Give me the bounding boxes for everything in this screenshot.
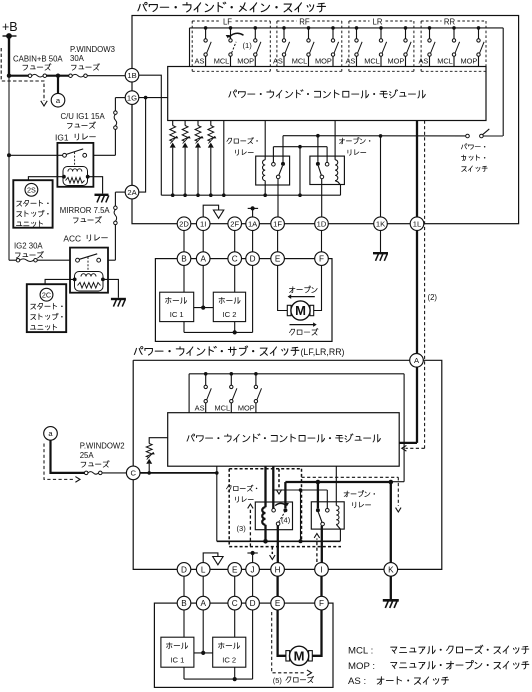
wire open relay common to 1D xyxy=(321,179,323,217)
dashed group box LR xyxy=(349,20,370,22)
label sub switch title xyxy=(134,348,136,354)
wire J-D xyxy=(252,576,254,596)
node C (sub unit) xyxy=(228,596,242,610)
switch sub MCL xyxy=(230,372,234,376)
label close direction xyxy=(290,324,315,326)
relay close contacts (main) xyxy=(282,136,284,162)
wire module supply bus (main) xyxy=(161,194,340,196)
node A junction xyxy=(410,354,424,368)
relay open coil (sub) xyxy=(335,466,337,505)
wire C to hall IC2 xyxy=(234,265,236,292)
svg-text:IC 1: IC 1 xyxy=(170,310,184,319)
wire fuse to IG1 relay contact xyxy=(114,129,116,155)
wire line A to 1K xyxy=(379,134,383,138)
wire 1G-2A link xyxy=(131,104,133,185)
node K (sub) xyxy=(384,563,398,577)
svg-text:(LF,LR,RR): (LF,LR,RR) xyxy=(301,347,345,357)
wire hall mid link xyxy=(194,307,214,309)
resistor with arrow at x=210.8 xyxy=(210,121,212,126)
svg-text:MCL: MCL xyxy=(214,403,230,412)
svg-text:A: A xyxy=(200,599,206,608)
node F (sub unit) xyxy=(315,596,329,610)
wire fuse to 1B xyxy=(87,75,125,77)
svg-text:P.WINDOW2: P.WINDOW2 xyxy=(80,442,125,451)
svg-text:MIRROR 7.5A: MIRROR 7.5A xyxy=(60,206,111,215)
wire +B main feed vertical xyxy=(8,36,10,76)
box main door unit (motor/hall) xyxy=(155,259,332,342)
relay close coil (main) xyxy=(264,121,266,160)
svg-text:IC 1: IC 1 xyxy=(170,655,184,664)
svg-text:MOP: MOP xyxy=(238,403,255,412)
node C xyxy=(126,466,140,480)
wire D-B xyxy=(183,576,185,596)
dashed flow bus bottom xyxy=(229,546,341,548)
wire module pin to bus xyxy=(223,121,225,196)
wire CABIN+B fuse feed xyxy=(9,75,28,77)
fuse P.WINDOW2 25A xyxy=(84,471,88,475)
svg-text:25A: 25A xyxy=(80,451,95,460)
svg-text:B: B xyxy=(181,255,187,264)
switch RR MOP xyxy=(477,26,481,30)
svg-text:2C: 2C xyxy=(42,290,51,299)
wire D to sensor bus xyxy=(252,265,254,332)
svg-text:MOP: MOP xyxy=(315,57,332,66)
svg-text:AS: AS xyxy=(195,57,205,66)
relay close (main) box xyxy=(256,156,290,185)
node 1F xyxy=(271,217,285,231)
resistor with arrow at x=172.7 xyxy=(172,121,174,126)
relay open coil (main) xyxy=(334,121,336,160)
node 2D xyxy=(183,217,185,231)
label open relay (sub) xyxy=(344,492,349,494)
svg-text:(3): (3) xyxy=(237,524,247,533)
wire 2A to MIRROR fuse xyxy=(115,191,125,193)
wire E to motor (sub) thick xyxy=(278,610,286,656)
svg-text:B: B xyxy=(181,599,187,608)
relay open (sub) box xyxy=(311,502,344,529)
svg-text:C: C xyxy=(130,469,136,478)
node L (sub) xyxy=(196,563,210,577)
svg-text:IC 2: IC 2 xyxy=(222,655,236,664)
svg-text:1F: 1F xyxy=(273,219,282,228)
wire D to sensor bus (sub) xyxy=(252,610,254,679)
node A (main unit) xyxy=(196,252,210,266)
wire B to hall IC1 xyxy=(183,265,185,292)
node 1I xyxy=(196,217,210,231)
wire E-C xyxy=(234,576,236,596)
wire hall mid link (sub) xyxy=(194,652,213,654)
wire bus to module top-left xyxy=(189,28,191,67)
wire 2D-B xyxy=(183,231,185,252)
node H (sub) xyxy=(271,563,285,577)
node E (sub unit) xyxy=(271,596,285,610)
svg-text:F: F xyxy=(319,255,324,264)
svg-text:D: D xyxy=(181,565,187,574)
dashed feed arrow (a to C) xyxy=(44,444,74,480)
switch sub AS xyxy=(204,372,208,376)
svg-text:C: C xyxy=(232,599,238,608)
wire 1B to supply bus xyxy=(139,75,162,195)
wire 1L thick feed from module to A xyxy=(416,121,418,217)
svg-text:MCL: MCL xyxy=(437,57,453,66)
wire module pin to coil bus (sub) xyxy=(216,466,218,541)
svg-text:D: D xyxy=(250,255,256,264)
ground ACC relay xyxy=(111,298,126,300)
wire line A to K (thick) xyxy=(390,482,392,563)
svg-text:LF: LF xyxy=(223,17,232,26)
wire C supply bus (sub) xyxy=(140,472,217,474)
wire 1D-F xyxy=(321,231,323,252)
svg-text:MOP: MOP xyxy=(387,57,404,66)
wire IG1 coil to 2S unit xyxy=(28,177,64,181)
svg-text:P.WINDOW3: P.WINDOW3 xyxy=(70,45,115,54)
node D (main unit) xyxy=(246,252,260,266)
svg-text:MOP :: MOP : xyxy=(348,661,375,672)
wire close relay common to 1F xyxy=(277,179,279,217)
ground IG1 relay xyxy=(95,194,109,196)
svg-text:MCL: MCL xyxy=(214,57,230,66)
svg-text:+B: +B xyxy=(2,20,18,34)
node F (main unit) xyxy=(315,252,329,266)
node B (main unit) xyxy=(177,252,191,266)
svg-text:(1): (1) xyxy=(243,41,253,50)
svg-text:MCL: MCL xyxy=(292,57,308,66)
wire relay contact line A (main) xyxy=(283,135,466,137)
fuse MIRROR 7.5A xyxy=(114,206,118,210)
node 1A xyxy=(246,217,260,231)
wire IG2 fuse to ACC relay xyxy=(37,259,70,261)
wire fuse to ACC relay contact xyxy=(114,225,116,261)
label (1) actuation arrow on LF MCL xyxy=(229,33,244,37)
svg-text:2S: 2S xyxy=(27,185,36,194)
dashed branch arrow (to other circuits) xyxy=(1,48,44,101)
svg-text:AS: AS xyxy=(195,403,205,412)
fuse IG2 30A xyxy=(9,259,16,261)
relay open contacts (sub) xyxy=(316,508,320,512)
svg-text:A: A xyxy=(200,255,206,264)
svg-text:RR: RR xyxy=(444,17,456,26)
dashed arrow up near I xyxy=(316,539,318,563)
wire bus right drop xyxy=(403,374,405,482)
wire motor to F xyxy=(314,265,322,310)
wire a to P.WINDOW2 fuse xyxy=(51,440,85,473)
svg-text:1L: 1L xyxy=(413,219,421,228)
wire IG1 coil to ground xyxy=(88,177,103,194)
terminal arrow above 1I xyxy=(203,205,218,217)
dashed arrow into close relay xyxy=(278,469,280,489)
box control module (sub) xyxy=(168,413,400,467)
label close relay (sub) xyxy=(226,486,228,489)
relay IG1 coil xyxy=(63,167,88,186)
svg-text:M: M xyxy=(294,648,305,663)
dashed arrow toward H xyxy=(271,547,273,554)
wire A to sensor mid (sub) xyxy=(202,610,204,653)
svg-text:(2): (2) xyxy=(428,293,438,302)
svg-text:IG2 30A: IG2 30A xyxy=(14,241,43,250)
box 2S start-stop unit xyxy=(13,180,52,228)
resistor (sub) xyxy=(149,438,168,444)
wire switch supply bus xyxy=(190,27,504,29)
svg-text:CABIN+B 50A: CABIN+B 50A xyxy=(13,54,63,63)
svg-text:I: I xyxy=(320,565,322,574)
svg-text:LR: LR xyxy=(373,17,383,26)
node I (sub) xyxy=(315,563,329,577)
resistor with arrow at x=185.1 xyxy=(184,121,186,126)
wire 1G to module xyxy=(139,97,168,99)
ground K (thick) xyxy=(390,576,392,599)
relay close contacts (sub) xyxy=(272,466,274,508)
terminal arrow above L xyxy=(203,553,218,563)
svg-text:E: E xyxy=(275,255,281,264)
dashed flow path (4) horizontal xyxy=(229,468,301,470)
svg-text:K: K xyxy=(388,565,394,574)
switch RF MCL xyxy=(307,26,311,30)
svg-text:D: D xyxy=(250,599,256,608)
wire A to sub module (thick) xyxy=(416,367,418,443)
resistor with arrow at x=198.0 xyxy=(197,121,199,126)
svg-text:1B: 1B xyxy=(127,71,136,80)
svg-text:IG1: IG1 xyxy=(55,132,69,142)
node 1G xyxy=(125,91,139,105)
wire close common to H (thick) xyxy=(277,526,279,563)
wire L-A xyxy=(202,576,204,596)
motor M (main) xyxy=(287,305,291,315)
svg-text:RF: RF xyxy=(299,17,310,26)
wire 1I-A xyxy=(202,231,204,252)
svg-text:AS :: AS : xyxy=(348,676,366,687)
svg-text:2D: 2D xyxy=(179,219,189,228)
dashed path (2) xyxy=(424,121,426,449)
wire 1A-D xyxy=(252,231,254,252)
svg-text:M: M xyxy=(295,303,306,318)
svg-text:(4): (4) xyxy=(281,516,291,525)
wire sub switch bus xyxy=(189,373,404,375)
box power window main switch unit xyxy=(132,16,519,224)
svg-text:MCL :: MCL : xyxy=(348,646,373,657)
dashed group box LF xyxy=(192,20,219,22)
wire H-E thick xyxy=(276,576,278,596)
wire contact line B (sub) xyxy=(273,489,327,491)
label open relay (main) xyxy=(339,139,344,141)
box power window sub switch unit xyxy=(133,360,442,569)
wire ACC coil to 2C unit xyxy=(45,279,75,284)
fuse P.WINDOW3 30A xyxy=(69,74,73,78)
switch RF AS xyxy=(282,26,286,30)
wire fuse to C xyxy=(102,472,126,474)
terminal tap above J xyxy=(252,553,254,563)
node 2F xyxy=(228,217,242,231)
wire hall bottom bus xyxy=(183,322,185,333)
wire hall bottom bus (sub) xyxy=(183,667,185,679)
node a (main) xyxy=(51,93,65,107)
wire B to hall IC1 (sub) xyxy=(183,610,185,637)
svg-text:H: H xyxy=(275,565,281,574)
label main switch title xyxy=(138,4,140,10)
svg-text:L: L xyxy=(201,565,206,574)
relay ACC box xyxy=(70,248,108,293)
node E (sub row) xyxy=(228,563,242,577)
node B (sub unit) xyxy=(177,596,191,610)
relay open contacts (main) xyxy=(316,162,320,166)
label open direction xyxy=(289,288,295,290)
svg-text:1K: 1K xyxy=(376,219,385,228)
relay close coil (sub) thick xyxy=(264,466,266,507)
svg-text:IC 2: IC 2 xyxy=(223,310,237,319)
svg-text:1D: 1D xyxy=(317,219,327,228)
ground 1K xyxy=(380,231,382,253)
svg-text:MOP: MOP xyxy=(237,57,254,66)
svg-text:J: J xyxy=(251,565,255,574)
box hall IC2 (main) xyxy=(213,292,245,321)
node 1K xyxy=(374,217,388,231)
svg-text:C: C xyxy=(232,255,238,264)
wire 2A to 1G tap xyxy=(139,98,146,193)
junction +B / CABIN fuse xyxy=(7,74,11,78)
dashed arrow (3) up xyxy=(249,510,251,547)
dashed path from module to lower right xyxy=(302,476,399,478)
switch LR AS xyxy=(355,26,359,30)
node D (sub) xyxy=(183,563,185,577)
relay open (main) box xyxy=(310,156,345,184)
relay IG1 contact xyxy=(9,154,63,156)
node +B battery terminal xyxy=(3,35,17,37)
wire C to hall IC2 (sub) xyxy=(234,610,236,637)
svg-text:ACC: ACC xyxy=(63,233,81,243)
svg-text:(5): (5) xyxy=(273,676,282,685)
fuse CABIN+B 50A xyxy=(28,74,32,78)
wire bus down to power cut switch xyxy=(502,28,504,136)
svg-text:F: F xyxy=(319,599,324,608)
switch power cut xyxy=(466,134,470,138)
svg-text:E: E xyxy=(275,599,281,608)
relay ACC coil xyxy=(75,272,104,292)
wire fuse to junction a xyxy=(47,75,71,77)
svg-text:2A: 2A xyxy=(127,188,137,197)
node 2A xyxy=(125,185,139,199)
node E (main unit) xyxy=(271,252,285,266)
wire to circle a xyxy=(57,76,59,94)
wire E to motor xyxy=(278,265,288,310)
node D (sub unit) xyxy=(246,596,260,610)
svg-text:AS: AS xyxy=(345,57,355,66)
node a (sub feed) xyxy=(44,427,58,441)
switch RF MOP xyxy=(331,26,335,30)
wire I-F thick xyxy=(320,576,322,596)
box hall IC2 (sub) xyxy=(213,637,246,667)
node J (sub) xyxy=(246,563,260,577)
dashed path (5) close xyxy=(272,612,306,673)
svg-text:E: E xyxy=(232,565,238,574)
switch sub MOP xyxy=(254,372,258,376)
box control module (main) xyxy=(168,67,486,121)
svg-text:C/U IG1 15A: C/U IG1 15A xyxy=(61,112,106,121)
dashed group box RR xyxy=(421,20,441,22)
svg-text:1A: 1A xyxy=(248,219,258,228)
switch LF AS xyxy=(204,26,208,30)
box sub door unit (motor/hall) xyxy=(154,603,333,687)
node 1B xyxy=(125,68,139,82)
wire 2F-C xyxy=(234,231,236,252)
terminal tap above 1A xyxy=(252,208,254,217)
svg-text:MOP: MOP xyxy=(460,57,477,66)
svg-text:1G: 1G xyxy=(127,93,137,102)
svg-text:30A: 30A xyxy=(70,54,85,63)
wire A to sensor mid line xyxy=(202,265,204,307)
box 2C start-stop unit xyxy=(27,284,66,332)
node 1D xyxy=(315,217,329,231)
svg-text:1I: 1I xyxy=(200,219,206,228)
svg-text:MCL: MCL xyxy=(364,57,380,66)
dashed flow vertical right xyxy=(301,469,303,541)
wire 1G to C/U IG1 fuse xyxy=(115,97,125,99)
box hall IC1 (sub) xyxy=(161,637,194,667)
box hall IC1 (main) xyxy=(160,292,194,321)
motor M (sub) xyxy=(286,651,290,661)
node 1L xyxy=(410,217,424,231)
svg-text:AS: AS xyxy=(418,57,428,66)
switch LR MCL xyxy=(379,26,383,30)
switch LF MCL xyxy=(229,26,233,30)
svg-text:AS: AS xyxy=(273,57,283,66)
wire coil bus (sub) xyxy=(217,540,341,542)
node A (sub unit) xyxy=(196,596,210,610)
svg-text:2F: 2F xyxy=(230,219,239,228)
relay IG1 box xyxy=(57,143,93,187)
wire motor to F (sub) thick xyxy=(312,610,321,656)
switch RR MCL xyxy=(452,26,456,30)
wire ACC coil to ground xyxy=(103,279,119,297)
dashed flow vertical left xyxy=(228,469,230,547)
switch RR AS xyxy=(428,26,432,30)
node C (main unit) xyxy=(228,252,242,266)
relay ACC contact xyxy=(76,258,80,262)
label power cut switch xyxy=(461,145,462,149)
relay close (sub) box xyxy=(255,502,292,530)
label close relay (main) xyxy=(227,138,229,141)
switch LR MOP xyxy=(404,26,408,30)
wire bus drop joins line A xyxy=(391,481,404,483)
fuse C/U IG1 15A xyxy=(114,111,118,115)
wire relay contact line B (main) xyxy=(273,146,327,148)
wire contact line A (sub) thick xyxy=(285,481,390,483)
wire open common to I (thick) xyxy=(321,526,323,563)
switch LF MOP xyxy=(254,26,258,30)
wire 1F-E xyxy=(277,231,279,252)
dashed group box RF xyxy=(277,20,297,22)
